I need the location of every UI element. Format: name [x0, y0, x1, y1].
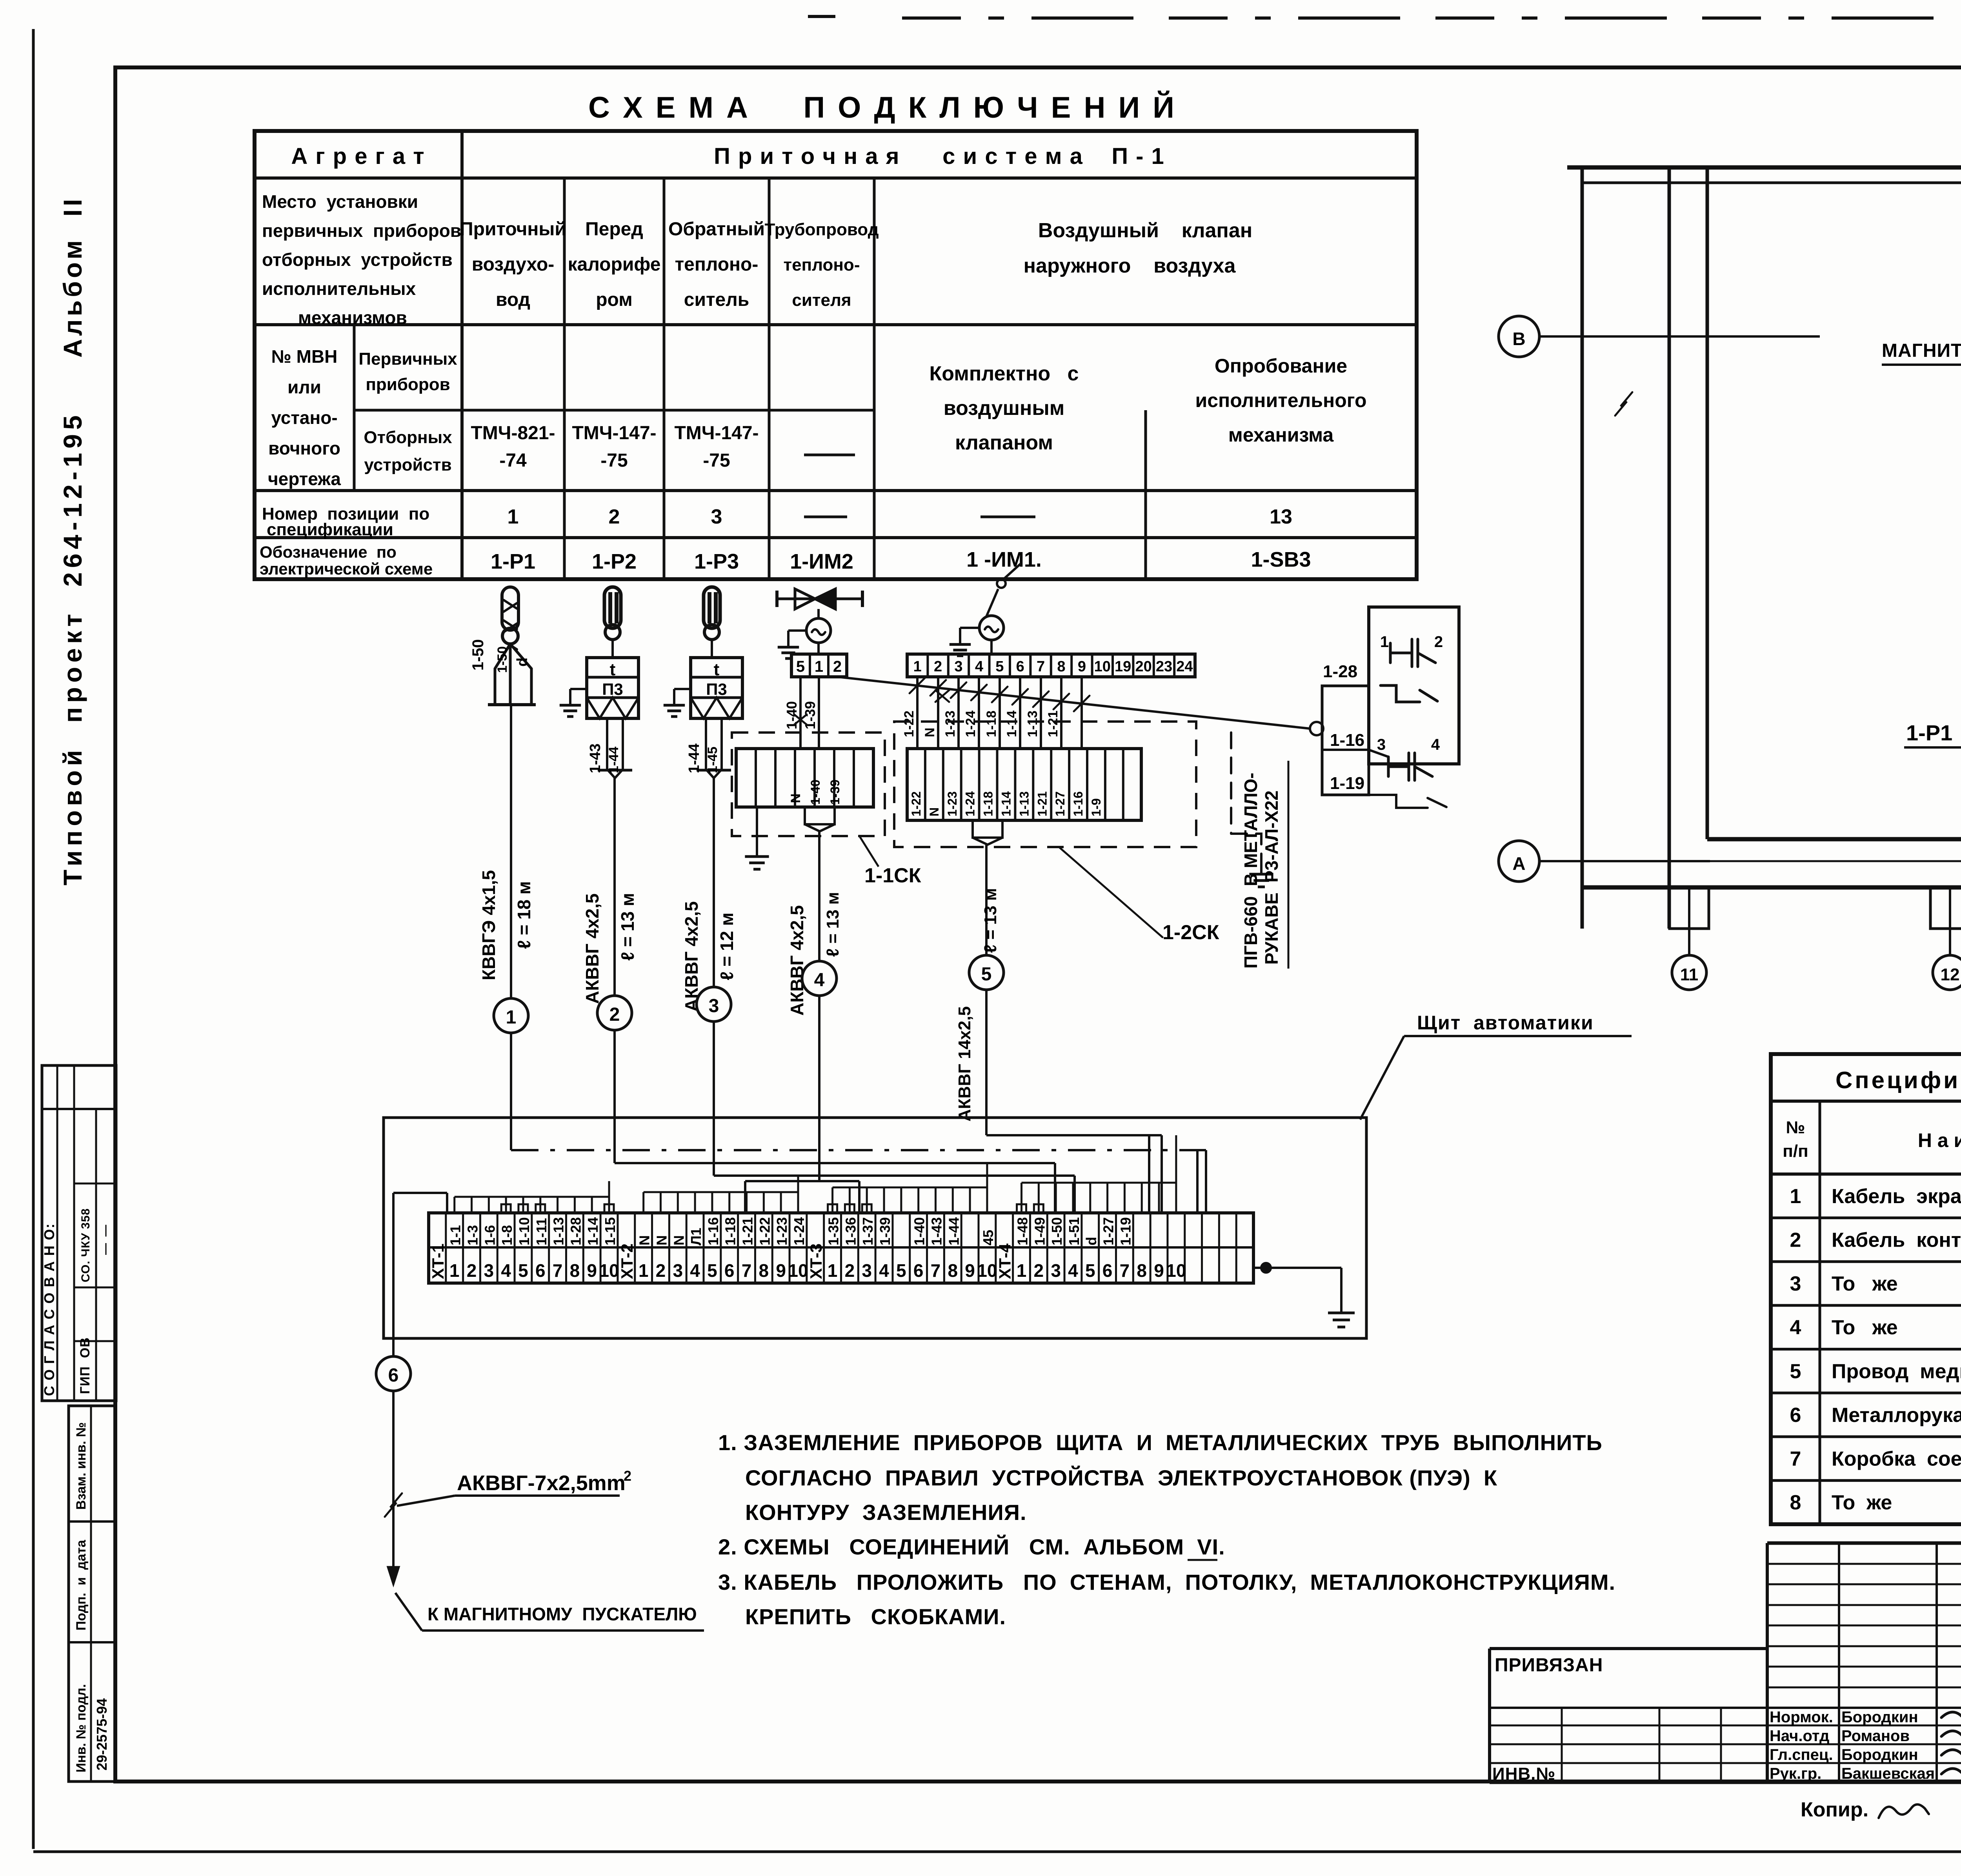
- svg-text:20: 20: [1135, 658, 1151, 675]
- svg-text:Первичных: Первичных: [358, 349, 457, 369]
- svg-text:4: 4: [879, 1260, 889, 1281]
- svg-text:теплоно-: теплоно-: [784, 255, 860, 274]
- svg-text:1: 1: [828, 1260, 838, 1281]
- svg-text:N: N: [922, 727, 937, 737]
- svg-text:1: 1: [1790, 1185, 1801, 1208]
- wire cable 4: [818, 831, 820, 961]
- svg-text:1. ЗАЗЕМЛЕНИЕ ПРИБОРОВ ЩИТА: 1. ЗАЗЕМЛЕНИЕ ПРИБОРОВ ЩИТА И МЕТАЛЛИЧЕС…: [718, 1430, 1603, 1455]
- svg-text:10: 10: [1166, 1260, 1186, 1281]
- svg-text:1-Р1: 1-Р1: [491, 550, 535, 573]
- svg-text:ℓ = 18 м: ℓ = 18 м: [514, 881, 534, 949]
- svg-text:1-40: 1-40: [808, 780, 822, 805]
- svg-text:калорифе: калорифе: [568, 254, 661, 275]
- node circle 4: [802, 961, 837, 996]
- svg-text:ℓ = 13 м: ℓ = 13 м: [617, 893, 638, 961]
- svg-text:10: 10: [788, 1260, 808, 1281]
- svg-text:Трубопровод: Трубопровод: [764, 220, 879, 239]
- svg-text:-75: -75: [600, 450, 628, 471]
- wire to junction box КСК (diagonal): [837, 677, 1310, 729]
- svg-text:9: 9: [587, 1260, 597, 1281]
- valve 1-ИМ2 with actuator: [777, 589, 862, 643]
- svg-text:3: 3: [673, 1260, 683, 1281]
- ground at damper actuator: [960, 627, 979, 629]
- svg-text:1-39: 1-39: [828, 780, 842, 805]
- svg-text:N: N: [788, 793, 803, 803]
- svg-text:1-10: 1-10: [516, 1217, 532, 1245]
- svg-text:воздушным: воздушным: [944, 397, 1064, 420]
- svg-text:Провод медный: Провод медный: [1832, 1360, 1961, 1383]
- label 1-1СК with leader: [859, 835, 879, 867]
- svg-text:10: 10: [599, 1260, 619, 1281]
- wire cable 2: [613, 778, 616, 996]
- svg-text:1-15: 1-15: [602, 1217, 618, 1245]
- sheet bottom edge line: [33, 1851, 1961, 1853]
- svg-text:Нормок.: Нормок.: [1770, 1709, 1833, 1726]
- left stamp strip (Взам.инв.№ / Подп. и дата / Инв.№ подл.): [69, 1406, 115, 1781]
- jumper marks above strip: [501, 1204, 511, 1213]
- svg-text:1-37: 1-37: [860, 1217, 876, 1245]
- terminal strip 1..24: [907, 654, 1195, 677]
- svg-text:ситель: ситель: [684, 289, 749, 310]
- svg-text:А г р е г а т: А г р е г а т: [291, 144, 425, 169]
- svg-text:Нач.отд: Нач.отд: [1770, 1727, 1829, 1745]
- plan: room bottom wall: [1707, 837, 1961, 842]
- svg-text:2: 2: [934, 658, 942, 675]
- svg-text:1-36: 1-36: [842, 1217, 859, 1245]
- svg-text:8: 8: [1057, 658, 1065, 675]
- connection table grid: [255, 131, 1417, 579]
- svg-text:29-2575-94: 29-2575-94: [94, 1698, 110, 1771]
- svg-text:-74: -74: [499, 450, 527, 471]
- svg-text:2. СХЕМЫ СОЕДИНЕНИЙ СМ. А: 2. СХЕМЫ СОЕДИНЕНИЙ СМ. АЛЬБОМ VI.: [718, 1534, 1225, 1559]
- plan: bottom outer wall with column stubs: [1582, 885, 1961, 890]
- svg-text:П р и т о ч н а я с и с т: П р и т о ч н а я с и с т е м а П - 1: [714, 144, 1165, 169]
- wire cable 1 into panel: [510, 1033, 512, 1150]
- svg-text:Романов: Романов: [1841, 1727, 1910, 1745]
- wire cable 1 from B1 down to panel: [510, 705, 512, 998]
- svg-text:Перед: Перед: [585, 219, 643, 240]
- svg-text:1-18: 1-18: [984, 711, 999, 737]
- svg-text:— —: — —: [99, 1225, 112, 1255]
- svg-text:Бородкин: Бородкин: [1841, 1709, 1918, 1726]
- svg-text:КРЕПИТЬ СКОБКАМИ.: КРЕПИТЬ СКОБКАМИ.: [745, 1604, 1006, 1629]
- svg-text:п/п: п/п: [1783, 1142, 1808, 1161]
- svg-text:1-35: 1-35: [826, 1217, 842, 1245]
- svg-text:№ МВН: № МВН: [271, 346, 338, 367]
- svg-text:Типовой проект 264-12-195: Типовой проект 264-12-195: [58, 411, 87, 885]
- svg-text:1-13: 1-13: [1017, 791, 1031, 816]
- wire routing inside panel: cable 1 run: [511, 1149, 1206, 1151]
- svg-text:Л1: Л1: [688, 1228, 704, 1245]
- ground at sensor B2: [570, 688, 587, 690]
- wire cable 5: [985, 845, 988, 955]
- svg-text:3: 3: [711, 505, 722, 528]
- svg-text:2: 2: [656, 1260, 666, 1281]
- svg-text:ПГВ-660 В МЕТАЛЛО-: ПГВ-660 В МЕТАЛЛО-: [1241, 773, 1261, 969]
- svg-text:5: 5: [1085, 1260, 1095, 1281]
- svg-text:1-21: 1-21: [740, 1217, 756, 1245]
- damper actuator symbol above strip: [979, 563, 1021, 640]
- wire fan-out stubs into terminals: [455, 1196, 609, 1198]
- svg-text:6: 6: [388, 1365, 399, 1386]
- svg-text:1-Р3: 1-Р3: [694, 550, 739, 573]
- wire: PE from node 6 to strip: [392, 1193, 395, 1356]
- svg-text:ГИП ОВ: ГИП ОВ: [78, 1337, 93, 1394]
- svg-text:С О Г Л А С О В А Н О:: С О Г Л А С О В А Н О:: [41, 1223, 57, 1396]
- svg-text:1-51: 1-51: [1066, 1217, 1082, 1245]
- svg-text:8: 8: [759, 1260, 769, 1281]
- svg-text:приборов: приборов: [366, 375, 450, 394]
- svg-text:чертежа: чертежа: [268, 469, 341, 489]
- svg-text:3: 3: [862, 1260, 872, 1281]
- panel enclosure Щит автоматики: [384, 1118, 1366, 1338]
- svg-text:1-27: 1-27: [1101, 1217, 1117, 1245]
- svg-text:1-43: 1-43: [928, 1217, 944, 1245]
- svg-text:1-9: 1-9: [1089, 798, 1103, 816]
- svg-text:К МАГНИТНОМУ ПУСКАТЕЛЮ: К МАГНИТНОМУ ПУСКАТЕЛЮ: [427, 1604, 697, 1624]
- svg-text:4: 4: [501, 1260, 511, 1281]
- svg-text:1-13: 1-13: [551, 1217, 567, 1245]
- svg-text:N: N: [653, 1235, 669, 1245]
- svg-text:9: 9: [776, 1260, 786, 1281]
- svg-text:1-45: 1-45: [705, 747, 720, 773]
- svg-text:8: 8: [1790, 1491, 1801, 1514]
- svg-text:1-16: 1-16: [705, 1217, 721, 1245]
- svg-text:1-21: 1-21: [1046, 711, 1061, 737]
- svg-text:3: 3: [484, 1260, 494, 1281]
- svg-text:1-39: 1-39: [877, 1217, 893, 1245]
- svg-text:ХТ-3: ХТ-3: [807, 1243, 825, 1279]
- svg-text:воздухо-: воздухо-: [472, 254, 555, 275]
- svg-text:КОНТУРУ ЗАЗЕМЛЕНИЯ.: КОНТУРУ ЗАЗЕМЛЕНИЯ.: [745, 1500, 1027, 1525]
- svg-text:4: 4: [1790, 1316, 1801, 1339]
- svg-text:Воздушный клапан: Воздушный клапан: [1038, 219, 1252, 242]
- svg-text:РУКАВЕ Р3-АЛ-Х22: РУКАВЕ Р3-АЛ-Х22: [1261, 791, 1282, 965]
- plan: top wall: [1567, 165, 1961, 170]
- ground at 1-2СК right: [1231, 733, 1261, 861]
- svg-text:23: 23: [1156, 658, 1172, 675]
- svg-text:Подп. и дата: Подп. и дата: [74, 1540, 89, 1631]
- svg-text:1: 1: [506, 1007, 517, 1028]
- node circle 1: [494, 998, 528, 1033]
- svg-text:1-13: 1-13: [1025, 711, 1040, 737]
- svg-text:электрической схеме: электрической схеме: [260, 560, 433, 578]
- svg-text:ℓ = 13 м: ℓ = 13 м: [823, 892, 842, 957]
- svg-text:Обозначение по: Обозначение по: [260, 543, 397, 561]
- svg-text:12: 12: [1941, 965, 1960, 984]
- svg-text:Гл.спец.: Гл.спец.: [1770, 1746, 1833, 1763]
- wire routing: cable 2 run: [615, 1162, 1055, 1164]
- svg-text:10: 10: [977, 1260, 997, 1281]
- svg-text:1-50: 1-50: [495, 646, 510, 673]
- svg-text:1-28: 1-28: [568, 1217, 584, 1245]
- svg-text:Кабель контрольный: Кабель контрольный: [1832, 1229, 1961, 1251]
- svg-text:1-50: 1-50: [469, 639, 487, 671]
- svg-text:ХТ-1: ХТ-1: [429, 1243, 447, 1279]
- svg-text:3: 3: [1377, 736, 1386, 753]
- svg-text:1-Р1: 1-Р1: [1906, 720, 1952, 745]
- svg-text:ТМЧ-821-: ТМЧ-821-: [471, 423, 555, 444]
- svg-text:механизмов: механизмов: [298, 307, 407, 328]
- svg-text:Бородкин: Бородкин: [1841, 1746, 1918, 1763]
- svg-text:1-ИМ2: 1-ИМ2: [790, 550, 853, 573]
- svg-text:d: d: [1083, 1237, 1099, 1245]
- svg-text:5: 5: [796, 658, 805, 675]
- svg-text:1-1СК: 1-1СК: [864, 864, 921, 887]
- svg-text:1-14: 1-14: [1004, 711, 1019, 737]
- svg-text:1: 1: [1380, 633, 1389, 651]
- svg-text:1-6: 1-6: [482, 1225, 498, 1245]
- svg-text:N: N: [637, 1235, 653, 1245]
- svg-text:Взам. инв. №: Взам. инв. №: [74, 1422, 89, 1510]
- node circle 3: [697, 987, 731, 1022]
- svg-text:5: 5: [981, 964, 992, 985]
- svg-text:То же: То же: [1832, 1316, 1898, 1339]
- junction box 1-1СК (dashed): [732, 733, 885, 836]
- svg-text:ℓ = 12 м: ℓ = 12 м: [717, 913, 737, 980]
- svg-text:Кабель экранированный: Кабель экранированный: [1832, 1185, 1961, 1208]
- svg-text:1-16: 1-16: [1330, 731, 1364, 750]
- svg-text:5: 5: [896, 1260, 906, 1281]
- svg-text:АКВВГ 14х2,5: АКВВГ 14х2,5: [955, 1006, 974, 1122]
- svg-text:1-23: 1-23: [945, 791, 959, 816]
- svg-text:1-27: 1-27: [1053, 791, 1067, 816]
- svg-text:13: 13: [1270, 505, 1292, 528]
- svg-text:СО. ЧКУ 358: СО. ЧКУ 358: [79, 1208, 92, 1282]
- svg-text:СОГЛАСНО ПРАВИЛ УСТРОЙСТВА: СОГЛАСНО ПРАВИЛ УСТРОЙСТВА ЭЛЕКТРОУСТАНО…: [745, 1465, 1497, 1490]
- svg-text:7: 7: [1037, 658, 1045, 675]
- svg-text:ХТ-2: ХТ-2: [618, 1243, 636, 1279]
- svg-text:ТМЧ-147-: ТМЧ-147-: [674, 423, 759, 444]
- svg-text:спецификации: спецификации: [267, 520, 393, 539]
- axis circle А: [1499, 841, 1539, 882]
- svg-text:1-22: 1-22: [757, 1217, 773, 1245]
- svg-text:4: 4: [1431, 736, 1440, 753]
- svg-text:Комплектно с: Комплектно с: [930, 362, 1079, 385]
- svg-text:6: 6: [913, 1260, 924, 1281]
- svg-text:7: 7: [1790, 1448, 1801, 1471]
- svg-text:24: 24: [1176, 658, 1193, 675]
- node circle 6: [376, 1356, 411, 1391]
- svg-text:Копир.: Копир.: [1801, 1798, 1868, 1821]
- svg-text:5: 5: [995, 658, 1004, 675]
- svg-text:1-3: 1-3: [465, 1225, 481, 1245]
- svg-text:4: 4: [690, 1260, 700, 1281]
- wires 1-40 / 1-39 from box 5|1|2: [799, 677, 802, 749]
- svg-text:1 -ИМ1.: 1 -ИМ1.: [966, 548, 1042, 571]
- svg-text:1: 1: [508, 505, 519, 528]
- sensor B1 thermometer 1-50: [469, 587, 536, 705]
- svg-text:Металлорукав: Металлорукав: [1832, 1404, 1961, 1427]
- svg-text:Опробование: Опробование: [1215, 355, 1347, 377]
- svg-text:11: 11: [1680, 965, 1699, 984]
- svg-text:наружного воздуха: наружного воздуха: [1024, 254, 1236, 277]
- ground at sensor B3: [674, 688, 691, 690]
- svg-text:7: 7: [931, 1260, 941, 1281]
- svg-text:3: 3: [1051, 1260, 1061, 1281]
- svg-text:1-SВ3: 1-SВ3: [1251, 548, 1311, 571]
- svg-text:Альбом II: Альбом II: [58, 196, 87, 358]
- svg-text:2: 2: [467, 1260, 477, 1281]
- svg-text:2: 2: [1034, 1260, 1044, 1281]
- svg-text:6: 6: [1790, 1404, 1801, 1427]
- svg-text:1-18: 1-18: [981, 791, 995, 816]
- svg-text:1-Р2: 1-Р2: [592, 550, 637, 573]
- svg-text:7: 7: [742, 1260, 752, 1281]
- sensor B2 temperature transmitter t/П3: [587, 587, 639, 718]
- ground at 1-1СК: [756, 807, 758, 843]
- svg-text:Отборных: Отборных: [364, 428, 452, 447]
- svg-text:Щит автоматики: Щит автоматики: [1417, 1012, 1594, 1034]
- svg-text:1-22: 1-22: [909, 791, 923, 816]
- svg-text:1-24: 1-24: [963, 711, 978, 737]
- svg-text:1: 1: [1017, 1260, 1027, 1281]
- svg-text:КВВГЭ 4х1,5: КВВГЭ 4х1,5: [478, 870, 499, 980]
- svg-text:1-16: 1-16: [1071, 791, 1085, 816]
- wire routing: cable 3 run: [714, 1174, 1075, 1177]
- svg-text:№: №: [1786, 1118, 1805, 1137]
- svg-text:1: 1: [639, 1260, 649, 1281]
- terminal block in 1-2СК: [907, 749, 1141, 845]
- svg-text:-75: -75: [703, 450, 730, 471]
- svg-text:1-14: 1-14: [999, 791, 1013, 816]
- svg-text:ПРИВЯЗАН: ПРИВЯЗАН: [1495, 1655, 1603, 1676]
- node circle 5: [969, 955, 1004, 990]
- svg-text:То же: То же: [1832, 1272, 1898, 1295]
- svg-text:механизма: механизма: [1228, 424, 1334, 446]
- svg-text:вод: вод: [496, 289, 530, 310]
- specification table: [1771, 1054, 1961, 1524]
- svg-text:8: 8: [570, 1260, 580, 1281]
- svg-text:19: 19: [1115, 658, 1131, 675]
- svg-text:d: d: [514, 658, 531, 667]
- svg-text:АКВВГ 4х2,5: АКВВГ 4х2,5: [582, 893, 602, 1004]
- svg-text:В: В: [1512, 329, 1525, 349]
- approval block СОГЛАСОВАНО: [42, 1065, 116, 1401]
- svg-text:сителя: сителя: [792, 291, 851, 310]
- svg-text:отборных устройств: отборных устройств: [262, 249, 453, 270]
- sheet left edge line: [32, 29, 35, 1849]
- title block left: привязан: [1490, 1647, 1767, 1650]
- svg-text:То же: То же: [1832, 1491, 1892, 1514]
- svg-text:ром: ром: [596, 289, 633, 310]
- svg-text:Н а и м е н о в а н и е: Н а и м е н о в а н и е: [1918, 1129, 1961, 1151]
- wire from node 6 down (к магнитному пускателю): [392, 1391, 395, 1580]
- svg-text:2: 2: [833, 658, 842, 675]
- svg-text:2: 2: [845, 1260, 855, 1281]
- svg-text:С Х Е М А П О Д К Л Ю Ч Е: С Х Е М А П О Д К Л Ю Ч Е Н И Й: [588, 91, 1177, 124]
- svg-text:1-43: 1-43: [587, 743, 604, 773]
- node circle 2: [597, 996, 632, 1030]
- svg-text:6: 6: [724, 1260, 735, 1281]
- svg-text:3: 3: [709, 996, 719, 1016]
- svg-text:8: 8: [948, 1260, 958, 1281]
- svg-text:45: 45: [980, 1230, 996, 1245]
- title block: [1490, 1543, 1961, 1783]
- svg-text:3: 3: [954, 658, 962, 675]
- svg-text:1-21: 1-21: [1035, 791, 1049, 816]
- svg-text:Коробка соединительная: Коробка соединительная: [1832, 1448, 1961, 1471]
- svg-text:4: 4: [814, 970, 825, 991]
- sensor B3 temperature transmitter t/П3: [691, 587, 742, 718]
- svg-text:АКВВГ-7х2,5mm: АКВВГ-7х2,5mm: [457, 1471, 626, 1495]
- svg-text:1-40: 1-40: [911, 1217, 928, 1245]
- connector 1-43/1-44 below B2: [607, 718, 623, 778]
- svg-text:1-14: 1-14: [585, 1217, 601, 1245]
- svg-text:Обратный: Обратный: [668, 219, 765, 240]
- svg-text:10: 10: [1094, 658, 1111, 675]
- svg-text:ТМЧ-147-: ТМЧ-147-: [572, 423, 656, 444]
- panel earth connection: [1261, 1263, 1271, 1272]
- svg-text:5: 5: [707, 1260, 717, 1281]
- plan: left wall axis lines: [1581, 167, 1584, 929]
- svg-text:или: или: [287, 377, 321, 397]
- svg-text:Инв. № подл.: Инв. № подл.: [74, 1684, 89, 1772]
- svg-text:1-19: 1-19: [1117, 1217, 1133, 1245]
- svg-text:7: 7: [553, 1260, 563, 1281]
- svg-text:Приточный: Приточный: [460, 219, 566, 240]
- connector 1-44/1-45 below B3: [706, 718, 722, 778]
- svg-text:2: 2: [1434, 633, 1443, 651]
- svg-text:1-24: 1-24: [963, 791, 977, 816]
- axis circle В: [1499, 316, 1539, 357]
- svg-text:клапаном: клапаном: [955, 431, 1053, 454]
- svg-text:1-28: 1-28: [1323, 662, 1357, 681]
- junction box КСК-8 contacts 1-28/1-16/1-19: [1310, 607, 1459, 808]
- svg-text:9: 9: [965, 1260, 975, 1281]
- svg-text:МАГНИТНЫЙ ПУСКАТЕЛЬ: МАГНИТНЫЙ ПУСКАТЕЛЬ: [1882, 340, 1961, 361]
- svg-text:1-23: 1-23: [943, 711, 958, 737]
- svg-text:1-40: 1-40: [784, 701, 800, 729]
- plan: axis А line across: [1710, 860, 1961, 862]
- svg-text:первичных приборов: первичных приборов: [262, 220, 461, 241]
- svg-text:7: 7: [1120, 1260, 1130, 1281]
- svg-text:1-2СК: 1-2СК: [1162, 921, 1219, 944]
- svg-text:3: 3: [1790, 1272, 1801, 1295]
- svg-text:5: 5: [518, 1260, 528, 1281]
- svg-text:4: 4: [975, 658, 983, 675]
- svg-text:2: 2: [624, 1468, 631, 1484]
- svg-text:устройств: устройств: [364, 455, 451, 474]
- terminal box 5|1|2: [791, 654, 847, 677]
- svg-text:1-44: 1-44: [946, 1217, 962, 1245]
- svg-text:Место установки: Место установки: [262, 191, 418, 212]
- svg-text:t: t: [610, 660, 616, 679]
- svg-text:2: 2: [609, 505, 620, 528]
- svg-text:9: 9: [1154, 1260, 1164, 1281]
- svg-text:1: 1: [913, 658, 922, 675]
- wire routing: cable 5 run: [986, 1134, 1162, 1136]
- svg-text:исполнительного: исполнительного: [1195, 389, 1367, 411]
- plan: inner left wall: [1706, 167, 1709, 839]
- wire routing: cable 4 run with split: [745, 1180, 859, 1182]
- svg-text:1-49: 1-49: [1031, 1217, 1048, 1245]
- svg-text:1-44: 1-44: [686, 743, 702, 773]
- svg-text:1: 1: [815, 658, 823, 675]
- svg-text:1-18: 1-18: [722, 1217, 739, 1245]
- svg-text:8: 8: [1137, 1260, 1147, 1281]
- svg-text:9: 9: [1078, 658, 1086, 675]
- svg-text:1: 1: [449, 1260, 460, 1281]
- svg-text:1-11: 1-11: [533, 1218, 549, 1245]
- svg-text:6: 6: [1102, 1260, 1113, 1281]
- svg-text:Спецификация монтажных из: Спецификация монтажных изделий: [1835, 1067, 1961, 1093]
- svg-text:4: 4: [1068, 1260, 1078, 1281]
- svg-text:Бакшевская: Бакшевская: [1841, 1765, 1935, 1782]
- svg-text:ХТ-4: ХТ-4: [996, 1243, 1014, 1279]
- svg-text:1-48: 1-48: [1015, 1217, 1031, 1245]
- svg-text:2: 2: [609, 1004, 620, 1025]
